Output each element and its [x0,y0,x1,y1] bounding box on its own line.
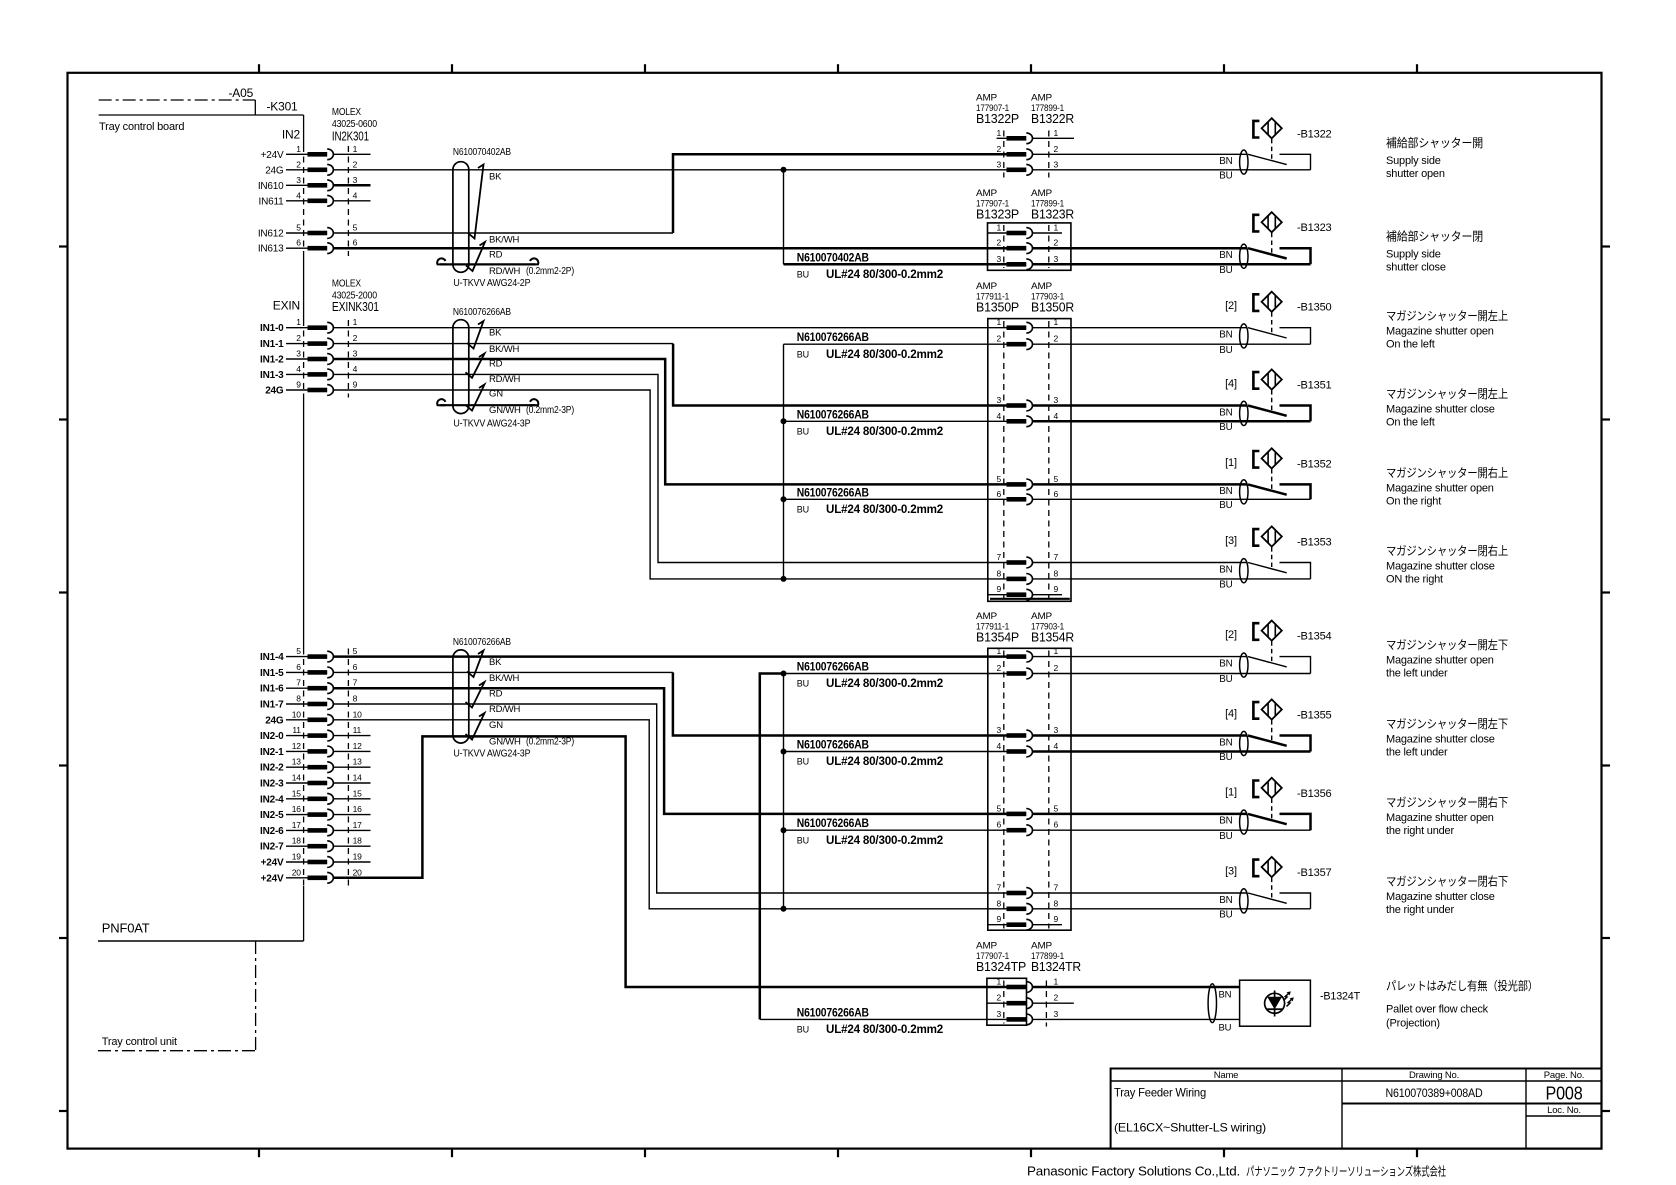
svg-text:1: 1 [296,317,301,327]
svg-text:N610070389+008AD: N610070389+008AD [1386,1088,1483,1100]
sensor actuating link dashed (-B1322) [1271,139,1273,159]
wire BN to sensor -B1351 [1033,404,1248,407]
svg-text:3: 3 [996,395,1001,405]
wire BN to sensor -B1354 [1033,656,1248,658]
svg-text:shutter open: shutter open [1386,168,1445,180]
cable N610070402AB spec U-TKVV AWG24-2P [453,277,530,289]
description JP (-B1323) [1386,229,1483,244]
svg-text:IN1-3: IN1-3 [260,370,284,381]
connector B1350 pin 7 [996,552,1058,568]
svg-text:PNF0AT: PNF0AT [102,921,150,936]
junction dot B1350P-4 bus [781,418,787,424]
connector B1354 pin 5 [996,803,1058,819]
svg-text:BU: BU [1219,909,1232,920]
description EN1 (-B1324T) [1386,1004,1489,1016]
svg-text:マガジンシャッター閉右上: マガジンシャッター閉右上 [1386,543,1508,558]
connector B1354 pin 8 [996,898,1058,914]
svg-text:9: 9 [1054,914,1059,924]
svg-text:3: 3 [996,159,1001,169]
sensor bracket (-B1323) [1253,215,1259,232]
connector B1324T pin 2 [987,993,1074,1009]
svg-text:-B1354: -B1354 [1297,631,1332,643]
svg-text:ON the right: ON the right [1386,574,1443,586]
junction dot 24G branch [781,167,787,173]
svg-text:BN: BN [1219,330,1232,341]
svg-text:P008: P008 [1546,1084,1583,1104]
switch blade (-B1355) [1248,736,1287,746]
cable bushing oval (-B1353) [1240,559,1248,583]
svg-text:N610076266AB: N610076266AB [797,1007,869,1019]
cable B twist pair 1 [467,321,484,349]
svg-text:(Projection): (Projection) [1386,1018,1440,1030]
svg-text:B1350R: B1350R [1031,300,1074,314]
title block label Drawing No. [1409,1070,1459,1081]
description EN2 (-B1323) [1386,262,1446,274]
sensor actuating link dashed (-B1351) [1271,390,1273,410]
svg-text:AMP: AMP [1031,188,1052,199]
svg-text:IN2-0: IN2-0 [260,731,284,742]
label terminal designator [1] (-B1356) [1225,786,1237,798]
label -B1351 [1297,380,1332,392]
svg-text:3: 3 [996,254,1001,264]
connector B1324TP/B1324TR header [976,940,1081,974]
connector B1350 pin 2 [996,334,1058,350]
connector EXINK301 boundary dashes (lower) [304,649,349,887]
wire BU to sensor -B1355 [1033,750,1311,753]
svg-text:-K301: -K301 [267,100,299,114]
svg-text:2: 2 [1054,144,1059,154]
connector IN2K301 pin 1 (+24V) [261,144,371,161]
svg-text:7: 7 [996,552,1001,562]
svg-text:3: 3 [296,175,301,185]
wire label RD/WH (cable A) [489,265,574,277]
svg-text:1: 1 [996,317,1001,327]
svg-text:Tray control unit: Tray control unit [102,1036,177,1048]
connector B1324T boundary dashes [1004,981,1047,1027]
cable bushing oval (-B1356) [1240,810,1248,834]
wire IN613/RD from IN2K301-6 to B1323P-2 [333,247,1006,250]
svg-text:[2]: [2] [1225,300,1237,312]
wire BN to sensor -B1322 [1033,153,1248,155]
wire BN to sensor -B1323 [1033,247,1248,250]
svg-text:MOLEX: MOLEX [332,279,361,290]
wire IN1-0/BK from EXINK301-1 to B1350P-1 [333,327,1006,329]
svg-text:IN612: IN612 [258,229,284,240]
svg-text:7: 7 [1054,552,1059,562]
description EN1 (-B1352) [1386,482,1494,494]
connector EXINK301 pin 19 (+24V) [261,852,371,869]
label PNF0AT [102,921,150,936]
connector B1324T pin 3 [996,1009,1058,1025]
sensor diamond (-B1355) [1262,699,1282,719]
svg-text:BK: BK [489,171,502,182]
svg-text:BN: BN [1219,737,1232,748]
svg-text:Supply side: Supply side [1386,155,1441,167]
connector EXINK301 pin 1 (IN1-0) [260,317,358,334]
svg-text:16: 16 [292,804,302,814]
cable N610070402AB shield oval [453,162,469,273]
svg-text:3: 3 [996,725,1001,735]
node Tray control unit boundary (dash-dot) [98,941,256,1051]
label -B1356 [1297,788,1332,800]
wire label BK/WH (cable C) [489,673,519,684]
svg-text:IN1-6: IN1-6 [260,684,284,695]
switch blade (-B1350) [1248,328,1287,338]
svg-text:BK/WH: BK/WH [489,344,519,355]
footer company name [1027,1164,1446,1179]
svg-text:2: 2 [996,663,1001,673]
svg-text:3: 3 [996,1009,1001,1019]
wire BN to sensor -B1350 [1033,327,1248,329]
svg-text:3: 3 [1054,725,1059,735]
svg-text:24G: 24G [265,715,284,726]
svg-text:9: 9 [353,380,358,390]
label BU (-B1350) [1219,345,1232,356]
svg-text:BN: BN [1219,250,1232,261]
svg-text:11: 11 [292,725,301,735]
wire BU to sensor -B1351 [1033,420,1311,423]
label BN (-B1355) [1219,737,1232,748]
connector IN2K301 pin 4 (IN611) [259,190,371,207]
emitter box (-B1324T) [1240,980,1311,1026]
cable bushing oval (-B1355) [1240,731,1248,755]
label BU (-B1357) [1219,909,1232,920]
svg-text:12: 12 [292,741,302,751]
svg-text:IN2-2: IN2-2 [260,763,284,774]
switch contact and return (-B1322) [1280,154,1311,170]
sensor bracket (-B1357) [1253,860,1259,877]
svg-text:-B1324T: -B1324T [1320,990,1360,1002]
connector B1350 pin 6 [996,489,1058,505]
label -K301 [267,100,299,114]
description JP (-B1353) [1386,543,1508,558]
connector B1322 boundary dashes [1004,131,1049,178]
svg-text:8: 8 [353,694,358,704]
cable C twist pair 1 [467,651,484,678]
svg-text:13: 13 [353,757,363,767]
connector B1323 pin 3 [996,254,1058,270]
label BN (-B1352) [1219,486,1232,497]
cable N610076266AB (upper) spec U-TKVV AWG24-3P [453,417,530,429]
svg-text:4: 4 [353,190,358,200]
svg-text:24G: 24G [265,165,284,176]
description EN2 (-B1350) [1386,339,1435,351]
sensor actuating link dashed (-B1350) [1271,312,1273,332]
svg-text:1: 1 [996,646,1001,656]
sensor actuating link dashed (-B1352) [1271,469,1273,489]
wire IN1-1/BK-WH from EXINK301-2 [333,343,673,345]
connector EXINK301 pin 2 (IN1-1) [260,333,358,350]
svg-text:補給部シャッター閉: 補給部シャッター閉 [1386,229,1483,244]
label terminal designator [1] (-B1352) [1225,457,1237,469]
label Tray control unit [102,1036,177,1048]
svg-text:18: 18 [292,836,302,846]
svg-text:On the right: On the right [1386,495,1441,507]
cable B twist pair 3 [466,385,485,411]
wire IN1-5/BK-WH from EXINK301-6 [333,671,673,673]
wire label BK (cable B) [489,327,502,338]
svg-text:UL#24 80/300-0.2mm2: UL#24 80/300-0.2mm2 [826,678,943,690]
svg-text:1: 1 [996,128,1001,138]
cable C twist pair 3 [466,713,485,740]
sensor diamond (-B1351) [1262,369,1282,389]
svg-text:Magazine shutter close: Magazine shutter close [1386,404,1495,416]
svg-text:Magazine shutter open: Magazine shutter open [1386,812,1494,824]
svg-text:B1323R: B1323R [1031,207,1074,221]
svg-text:BU: BU [1219,831,1232,842]
wire label RD/WH (cable B) [489,374,521,385]
svg-text:IN1-4: IN1-4 [260,652,284,663]
connector B1323P/B1323R header [976,188,1074,222]
svg-text:5: 5 [353,646,358,656]
svg-text:15: 15 [292,788,302,798]
svg-text:2: 2 [996,993,1001,1003]
sensor bracket (-B1356) [1253,781,1259,798]
label BN (-B1354) [1219,658,1232,669]
svg-text:3: 3 [1054,159,1059,169]
svg-text:UL#24 80/300-0.2mm2: UL#24 80/300-0.2mm2 [826,835,943,847]
svg-text:B1322R: B1322R [1031,112,1074,126]
label terminal designator [3] (-B1357) [1225,866,1237,878]
svg-text:(EL16CX~Shutter-LS wiring): (EL16CX~Shutter-LS wiring) [1114,1121,1266,1135]
svg-text:the right under: the right under [1386,904,1454,916]
svg-text:3: 3 [353,175,358,185]
svg-text:BU: BU [797,270,809,280]
cable N610070402AB twist pair 2 [466,242,485,271]
connector B1350 pin 4 [996,411,1058,427]
svg-text:マガジンシャッター開右下: マガジンシャッター開右下 [1386,794,1508,809]
wire IN1-7/RD-WH from EXINK301-8 to B1354P-7 [333,704,1006,893]
connector B1350 pin 1 [996,317,1058,333]
svg-text:[4]: [4] [1225,378,1237,390]
description EN1 (-B1355) [1386,734,1495,746]
svg-text:2: 2 [296,333,301,343]
svg-text:N610076266AB: N610076266AB [797,818,869,830]
svg-text:BN: BN [1219,486,1232,497]
svg-text:8: 8 [1054,568,1059,578]
svg-text:パレットはみだし有無（投光部）: パレットはみだし有無（投光部） [1386,978,1538,993]
svg-text:5: 5 [1054,803,1059,813]
label BN (-B1323) [1219,250,1232,261]
svg-text:17: 17 [353,820,363,830]
LED symbol circle (-B1324T) [1265,993,1285,1013]
svg-text:9: 9 [296,380,301,390]
svg-text:7: 7 [996,883,1001,893]
label BU (-B1353) [1219,580,1232,591]
connector EXINK301 pin 18 (IN2-7) [260,836,370,853]
svg-text:パナソニック ファクトリーソリューションズ株式会社: パナソニック ファクトリーソリューションズ株式会社 [1246,1164,1446,1179]
wire label GN/WH (cable B) [489,404,574,416]
svg-text:2: 2 [353,159,358,169]
svg-text:AMP: AMP [976,611,997,622]
svg-text:4: 4 [1054,411,1059,421]
title block name Tray Feeder Wiring [1114,1086,1206,1100]
wire BN to sensor -B1352 [1033,483,1248,486]
svg-text:B1350P: B1350P [976,300,1019,314]
description JP (-B1351) [1386,386,1508,401]
wire IN1-2/RD from EXINK301-3 to B1350P-5 [333,359,1006,484]
svg-text:IN1-2: IN1-2 [260,355,284,366]
svg-text:GN/WH: GN/WH [489,736,521,747]
connector B1354 pin 9 [988,914,1062,930]
svg-text:U-TKVV AWG24-2P: U-TKVV AWG24-2P [453,277,530,289]
wire 24G/GN from EXINK301-10 to B1354P-8 [333,720,1006,909]
svg-text:5: 5 [296,646,301,656]
svg-text:N610076266AB: N610076266AB [797,740,869,752]
switch contact and return (-B1353) [1280,563,1311,579]
svg-text:IN2K301: IN2K301 [332,129,369,144]
connector EXINK301 pin 12 (IN2-1) [260,741,370,758]
wire label BK/WH (cable A) [489,235,519,246]
svg-text:9: 9 [1054,584,1059,594]
description EN1 (-B1350) [1386,326,1494,338]
cable bushing oval (-B1324T) [1208,984,1216,1023]
switch blade (-B1353) [1248,563,1287,573]
sensor actuating link dashed (-B1357) [1271,878,1273,898]
wire IN1-5 riser to B1354P-3 [673,672,1007,735]
svg-text:Pallet over flow check: Pallet over flow check [1386,1004,1489,1016]
label -B1352 [1297,458,1332,470]
wire IN1-4/BK from EXINK301-5 to B1354P-1 [333,655,1006,658]
svg-text:Supply side: Supply side [1386,249,1441,261]
svg-text:B1354P: B1354P [976,630,1019,644]
wire B1324T BU return riser [760,674,784,1020]
wire label GN/WH (cable C) [489,735,574,747]
connector EXINK301 pin 20 (+24V) [261,867,362,884]
svg-text:IN2-7: IN2-7 [260,842,284,853]
svg-text:2: 2 [296,159,301,169]
svg-text:IN2-6: IN2-6 [260,826,284,837]
description EN2 (-B1355) [1386,747,1448,759]
junction dot B1354P-8 bus [781,906,787,912]
svg-text:B1324TP: B1324TP [976,960,1026,974]
svg-text:AMP: AMP [976,281,997,292]
svg-text:GN: GN [489,720,503,731]
svg-text:Magazine shutter open: Magazine shutter open [1386,326,1494,338]
label BN (-B1324T) [1219,989,1232,1000]
label BU (-B1352) [1219,500,1232,511]
svg-text:IN2-4: IN2-4 [260,794,284,805]
connector B1354P/B1354R header [976,611,1074,645]
svg-text:BU: BU [797,757,809,767]
sensor actuating link dashed (-B1356) [1271,799,1273,819]
description EN1 (-B1323) [1386,249,1441,261]
label BU (-B1324T) [1219,1023,1232,1034]
svg-text:IN2-1: IN2-1 [260,747,284,758]
connector B1354 pin 1 [996,646,1058,662]
connector B1323 box [988,223,1071,270]
svg-text:2: 2 [1054,334,1059,344]
description EN1 (-B1356) [1386,812,1494,824]
label BN (-B1322) [1219,156,1232,167]
label terminal designator [3] (-B1353) [1225,535,1237,547]
svg-text:IN1-5: IN1-5 [260,668,284,679]
label Tray control board [99,121,184,133]
cable bushing oval (-B1322) [1240,150,1248,174]
wire BN to sensor -B1353 [1033,562,1248,564]
svg-text:RD: RD [489,688,503,699]
switch contact and return (-B1354) [1280,657,1311,674]
svg-text:-B1350: -B1350 [1297,302,1332,314]
wire IN1-3/RD-WH from EXINK301-4 to B1350P-7 [333,374,1006,562]
svg-text:Tray Feeder Wiring: Tray Feeder Wiring [1114,1086,1206,1100]
svg-text:UL#24 80/300-0.2mm2: UL#24 80/300-0.2mm2 [826,1024,943,1036]
connector EXINK301 pin 5 (IN1-4) [260,646,358,663]
wire IN612/BK-WH from IN2K301-5 toward B1322P-2 [333,232,673,234]
label BN (-B1353) [1219,564,1232,575]
junction dot B1354P-2 bus top [781,671,787,677]
svg-text:BN: BN [1219,989,1232,1000]
description JP (-B1350) [1386,308,1508,323]
svg-text:3: 3 [296,349,301,359]
svg-text:N610070402AB: N610070402AB [453,146,511,158]
svg-text:12: 12 [353,741,363,751]
junction dot B1354P-4 bus [781,749,787,755]
switch blade (-B1354) [1248,657,1287,667]
svg-text:(0.2mm2-2P): (0.2mm2-2P) [526,265,574,277]
svg-text:GN/WH: GN/WH [489,405,521,416]
svg-text:AMP: AMP [1031,940,1052,951]
sensor bracket (-B1353) [1253,529,1259,546]
svg-text:B1322P: B1322P [976,112,1019,126]
description EN2 (-B1357) [1386,904,1454,916]
svg-text:[4]: [4] [1225,708,1237,720]
svg-text:7: 7 [353,678,358,688]
connector B1350 box [988,319,1071,602]
connector B1322 pin 3 [996,159,1058,175]
description EN1 (-B1322) [1386,155,1441,167]
wire IN1-1 riser to B1350P-3 [673,344,1006,406]
svg-text:BU: BU [797,505,809,515]
sensor bracket (-B1322) [1253,121,1259,138]
title block frame [1111,1069,1602,1149]
wire RD/WH unused stub with shield hooks (cable A) [437,258,538,264]
sensor diamond (-B1353) [1262,526,1282,546]
label EXIN port [273,299,300,313]
svg-text:B1354R: B1354R [1031,630,1074,644]
svg-text:4: 4 [996,411,1001,421]
sensor diamond (-B1322) [1262,118,1282,138]
svg-text:1: 1 [353,317,358,327]
svg-text:IN1-7: IN1-7 [260,700,284,711]
wire K301 board edge vertical [303,115,305,941]
switch contact and return (-B1356) [1280,814,1311,830]
svg-text:Loc. No.: Loc. No. [1547,1105,1581,1116]
svg-text:+24V: +24V [261,858,284,869]
cable N610076266AB (lower) shield oval [453,650,469,743]
wire BU to sensor -B1323 [1033,263,1311,266]
node -K301 board outline [99,114,304,116]
switch blade (-B1323) [1248,248,1287,258]
svg-text:On the left: On the left [1386,339,1435,351]
wire 24G/BK from IN2K301-2 to B1322P-3 [333,169,1006,171]
svg-text:マガジンシャッター閉左下: マガジンシャッター閉左下 [1386,716,1508,731]
sensor bracket (-B1354) [1253,623,1259,640]
svg-text:Magazine shutter close: Magazine shutter close [1386,734,1495,746]
cable label N610076266AB to B1354P-4 [784,740,1007,769]
label -B1324T [1320,990,1360,1002]
svg-text:6: 6 [353,238,358,248]
svg-text:the left under: the left under [1386,668,1448,680]
svg-text:BK/WH: BK/WH [489,673,519,684]
svg-text:2: 2 [996,334,1001,344]
svg-text:Tray control board: Tray control board [99,121,184,133]
wire BU to sensor -B1352 [1033,498,1311,500]
description EN2 (-B1356) [1386,825,1454,837]
cable bushing oval (-B1350) [1240,324,1248,348]
connector B1324T box [987,978,1027,1025]
svg-text:BU: BU [797,835,809,845]
